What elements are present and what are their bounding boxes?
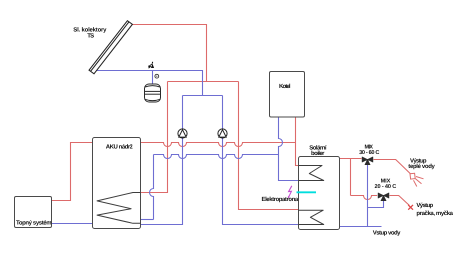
svg-text:Elektropatrona: Elektropatrona bbox=[262, 196, 299, 203]
svg-text:Topný systém: Topný systém bbox=[16, 220, 52, 227]
svg-text:Kotel: Kotel bbox=[279, 83, 291, 90]
svg-text:30 - 60 C: 30 - 60 C bbox=[359, 150, 379, 156]
svg-text:teplé vody: teplé vody bbox=[408, 163, 435, 170]
svg-text:Vstup vody: Vstup vody bbox=[373, 230, 401, 237]
svg-text:boiler: boiler bbox=[311, 150, 325, 157]
svg-text:AKU nádrž: AKU nádrž bbox=[106, 144, 133, 151]
svg-text:Sl. kolektory: Sl. kolektory bbox=[73, 26, 107, 33]
svg-text:pračka, myčka: pračka, myčka bbox=[416, 210, 453, 217]
svg-text:20 - 40 C: 20 - 40 C bbox=[375, 184, 397, 190]
svg-text:TS: TS bbox=[87, 33, 94, 40]
svg-text:Výstup: Výstup bbox=[416, 202, 433, 209]
